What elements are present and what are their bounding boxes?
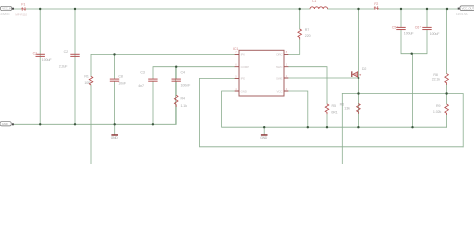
svg-text:10nF: 10nF	[118, 82, 127, 86]
svg-text:1.02k: 1.02k	[433, 110, 442, 114]
svg-text:L1: L1	[312, 0, 316, 3]
svg-text:IC1: IC1	[233, 47, 238, 51]
svg-text:220: 220	[305, 34, 311, 38]
svg-text:4n7: 4n7	[138, 84, 144, 88]
svg-text:R4: R4	[181, 96, 185, 100]
svg-text:C8: C8	[118, 74, 122, 78]
svg-text:100uF: 100uF	[42, 58, 53, 62]
svg-text:MF-R110: MF-R110	[15, 12, 27, 16]
svg-text:GND: GND	[2, 122, 8, 126]
svg-text:10R: 10R	[84, 81, 91, 85]
svg-text:VCC: VCC	[277, 89, 284, 93]
svg-text:SWC: SWC	[276, 65, 284, 69]
svg-text:SWE: SWE	[276, 76, 283, 80]
svg-text:100uF: 100uF	[404, 32, 415, 36]
svg-text:IPE: IPE	[241, 77, 246, 81]
svg-text:DRC: DRC	[276, 52, 283, 56]
svg-text:GND: GND	[111, 136, 119, 140]
svg-text:13k: 13k	[344, 107, 350, 111]
svg-text:D2: D2	[362, 67, 366, 71]
svg-text:0R1: 0R1	[331, 110, 337, 114]
svg-text:C1: C1	[33, 51, 37, 55]
svg-text:IPK: IPK	[241, 52, 246, 56]
svg-text:100uF: 100uF	[430, 32, 441, 36]
svg-text:24VDC: 24VDC	[0, 12, 10, 16]
svg-text:R1: R1	[84, 74, 88, 78]
svg-text:12V/1.5A: 12V/1.5A	[456, 12, 468, 16]
svg-text:VCC_IN: VCC_IN	[2, 7, 11, 11]
svg-text:GND: GND	[260, 136, 268, 140]
svg-text:C4: C4	[181, 71, 185, 75]
svg-text:C3: C3	[140, 71, 144, 75]
svg-text:R5: R5	[332, 104, 336, 108]
svg-text:COMP: COMP	[241, 65, 250, 69]
svg-text:VCC_OUT: VCC_OUT	[462, 7, 474, 11]
svg-text:F2: F2	[374, 2, 378, 6]
svg-text:R7: R7	[305, 28, 309, 32]
svg-text:C2: C2	[64, 50, 68, 54]
svg-text:100nF: 100nF	[181, 83, 192, 87]
svg-text:1.1k: 1.1k	[181, 104, 188, 108]
svg-text:F1: F1	[21, 3, 25, 7]
svg-text:22.1k: 22.1k	[432, 77, 441, 81]
svg-text:GND: GND	[241, 89, 248, 93]
svg-text:2.2uF: 2.2uF	[59, 64, 69, 68]
svg-text:R9: R9	[436, 104, 440, 108]
